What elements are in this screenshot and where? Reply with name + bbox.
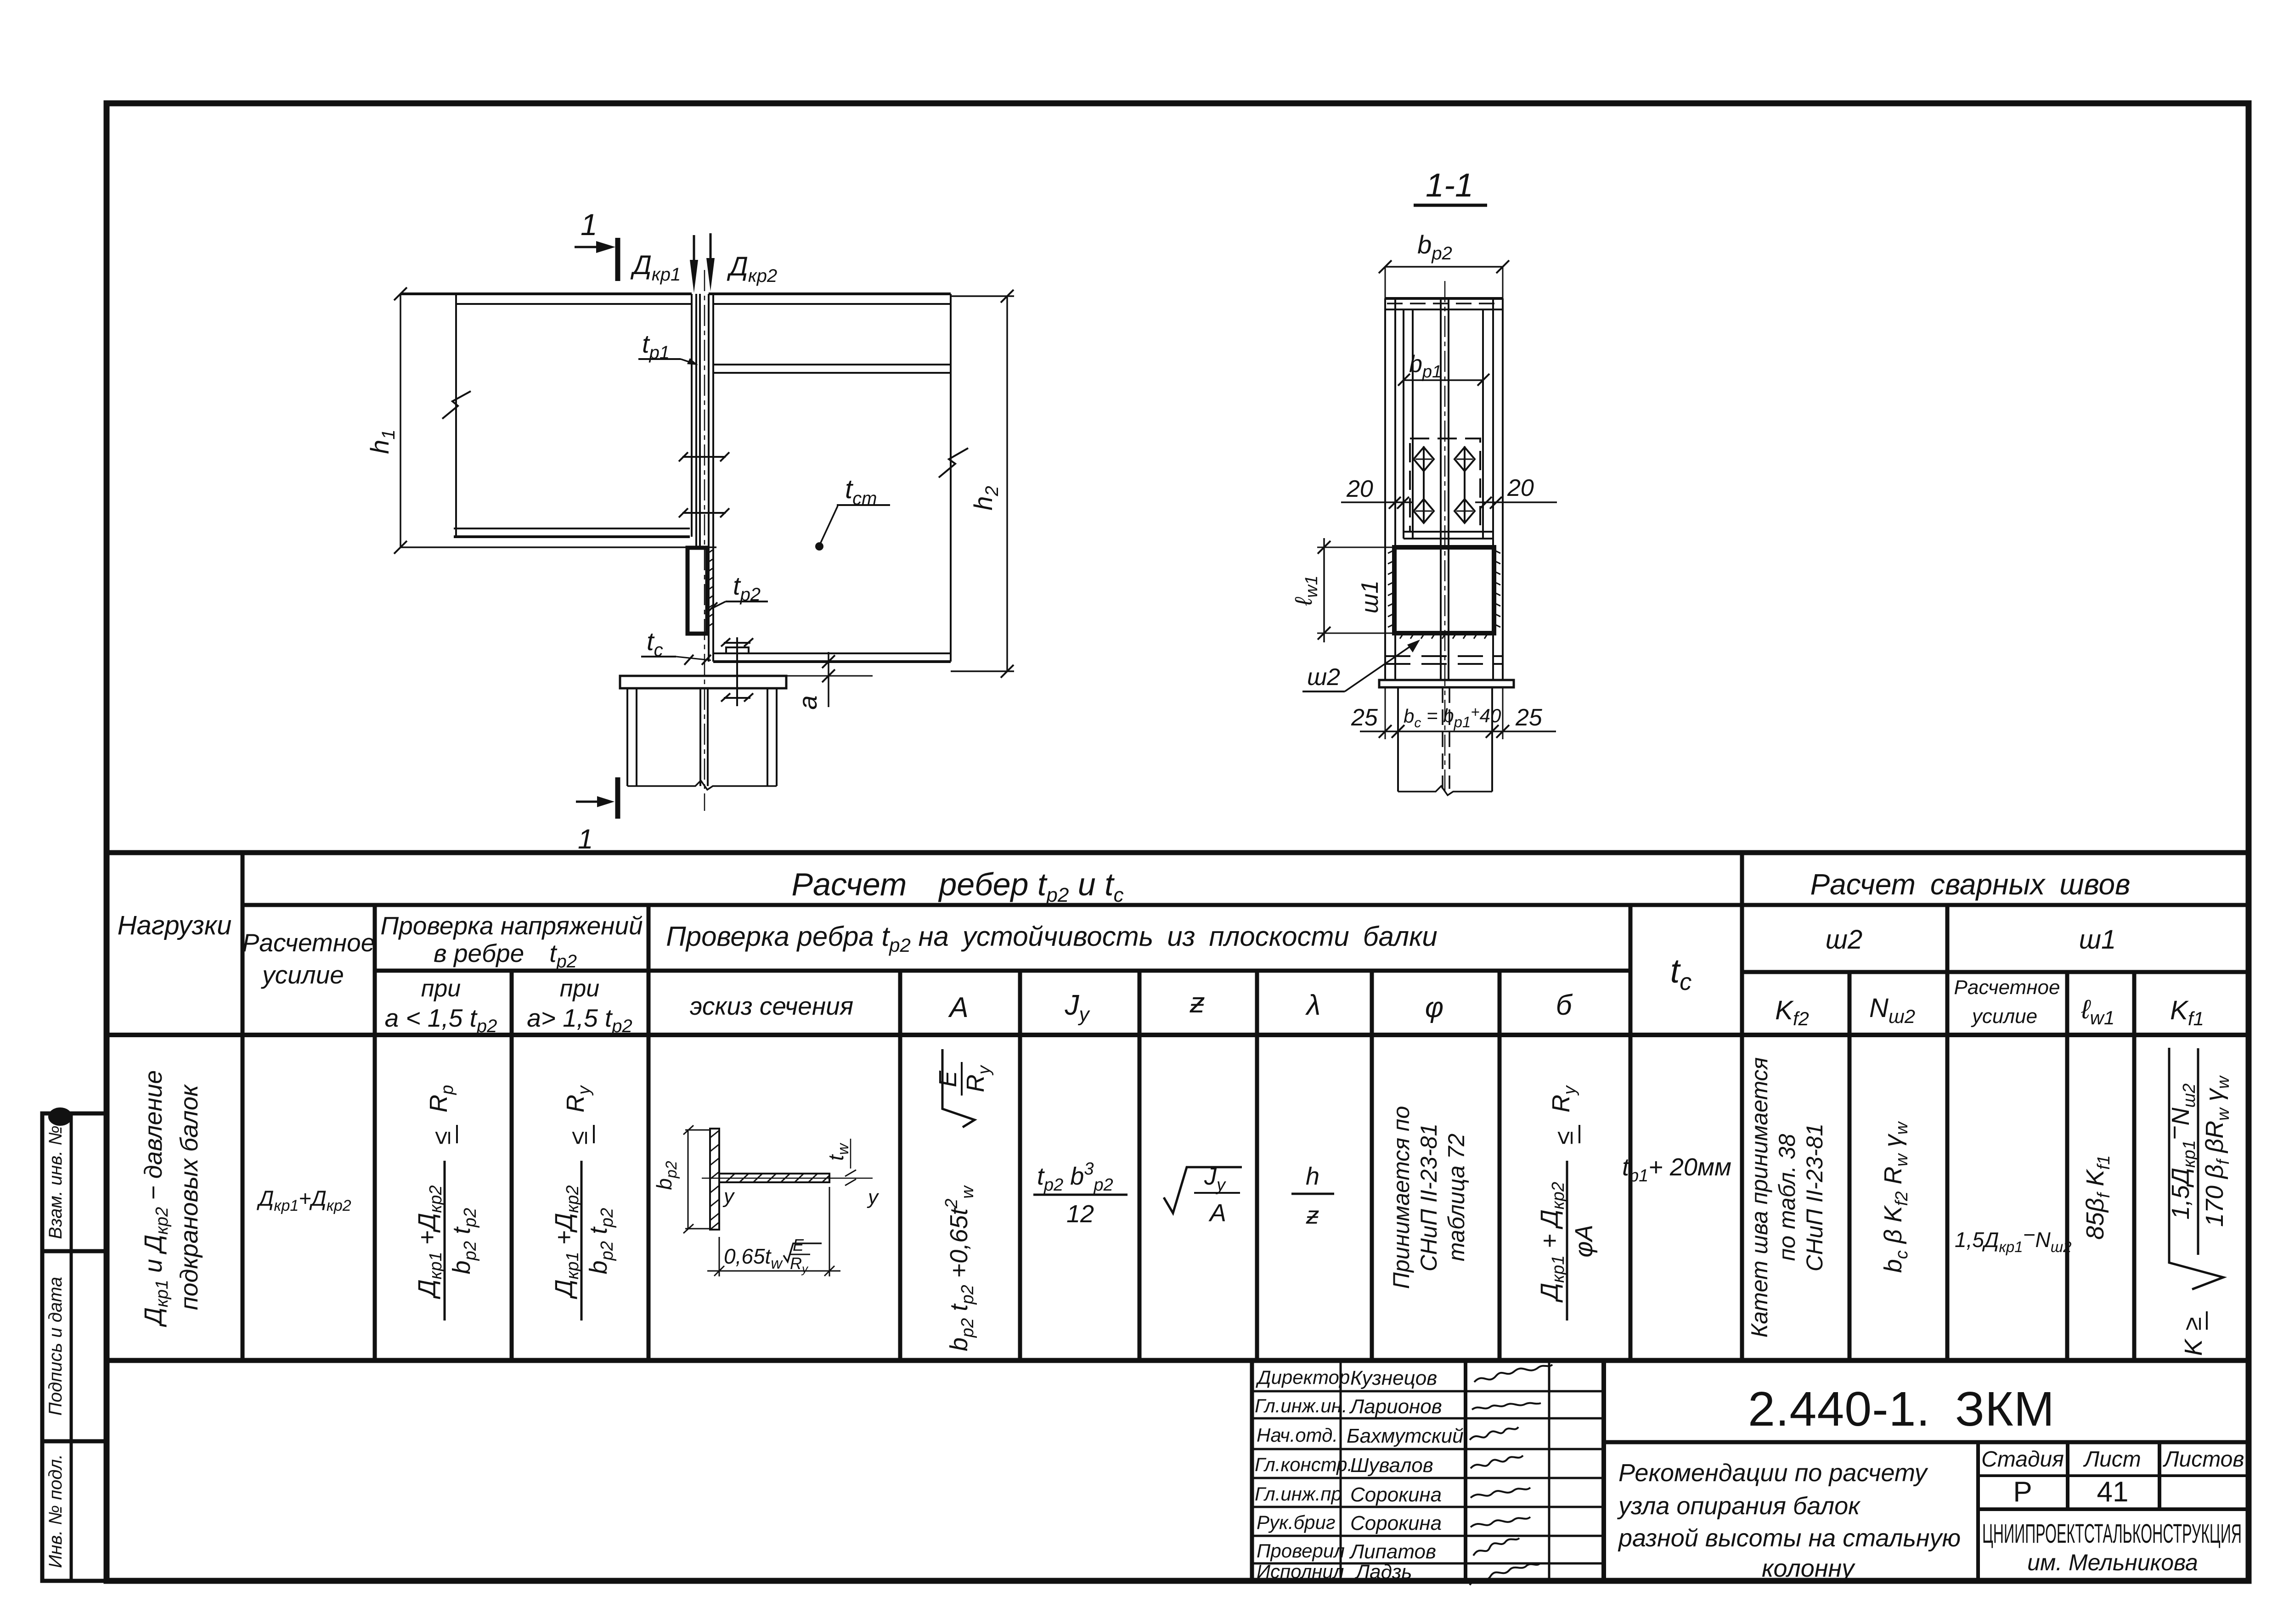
svg-text:усилие: усилие <box>260 961 344 989</box>
weld plate ш1 (bold) <box>1394 547 1494 633</box>
section mark 1 (top) <box>575 208 618 281</box>
svg-text:y: y <box>722 1185 735 1208</box>
hidden splice plate (dashed) <box>1410 438 1480 532</box>
svg-text:1-1: 1-1 <box>1426 167 1473 204</box>
svg-text:ƶ: ƶ <box>1190 987 1205 1019</box>
force arrow Дкр2 <box>706 233 777 291</box>
svg-text:по табл. 38: по табл. 38 <box>1774 1134 1800 1261</box>
svg-text:подкрановых балок: подкрановых балок <box>175 1084 203 1310</box>
svg-text:Липатов: Липатов <box>1349 1540 1436 1563</box>
cell Kf2: Катет шва принимается по табл. 38 СНиП II-23-81 (rotated) <box>1747 1057 1827 1338</box>
svg-text:Гл.инж.ин.: Гл.инж.ин. <box>1255 1395 1347 1416</box>
svg-text:Гл.констр.: Гл.констр. <box>1255 1454 1353 1475</box>
svg-text:≥: ≥ <box>2179 1317 2206 1331</box>
beam top flange (section) <box>1385 297 1503 300</box>
svg-text:Инв. № подл.: Инв. № подл. <box>45 1454 66 1568</box>
column line c11 tc left <box>1629 905 1633 1360</box>
svg-text:разной высоты на стальную: разной высоты на стальную <box>1618 1524 1961 1552</box>
column flanges and web <box>627 688 777 786</box>
cell sigma formula: (Дкр1+Дкр2)/(φА) ≤ Ry (rotated) <box>1536 1085 1598 1321</box>
svg-text:СНиП II-23-81: СНиП II-23-81 <box>1416 1124 1442 1271</box>
ink blob over margin box <box>48 1107 72 1126</box>
svg-text:ш1: ш1 <box>1357 580 1383 613</box>
table top line r0 <box>107 850 2249 855</box>
svg-text:ƶ: ƶ <box>1306 1202 1319 1229</box>
cell Jy formula: tр2 bр2³/12 <box>1033 1159 1128 1228</box>
sketch y-y axis <box>702 1178 873 1179</box>
svg-text:при: при <box>421 975 461 1002</box>
column web below cap (hidden, dashed) <box>1442 687 1443 789</box>
svg-text:Сорокина: Сорокина <box>1350 1484 1442 1506</box>
title block line under designation <box>1604 1440 2249 1444</box>
svg-text:20: 20 <box>1507 475 1534 501</box>
bolt symbols (diamonds) <box>1414 446 1475 523</box>
column line c15 <box>2065 972 2069 1360</box>
section mark 1 (bottom) <box>576 777 618 854</box>
svg-text:колонну: колонну <box>1762 1555 1855 1582</box>
table grid <box>107 853 2249 1360</box>
left margin stamp box: Инв. № подл. <box>42 1441 107 1581</box>
column line c5 <box>898 971 902 1360</box>
signature block columns <box>1340 1360 1342 1581</box>
signature block names <box>1347 1367 1464 1583</box>
svg-text:Проверил: Проверил <box>1257 1540 1345 1562</box>
rib plates tp2 outer edges <box>1385 298 1503 680</box>
svg-text:φ: φ <box>1425 992 1443 1023</box>
svg-text:Сорокина: Сорокина <box>1350 1512 1442 1534</box>
sketch dimension bр2 <box>683 1125 710 1233</box>
svg-text:h: h <box>1306 1163 1319 1190</box>
label ш2 with leader arrow <box>1302 640 1420 691</box>
svg-text:А: А <box>1208 1199 1226 1227</box>
svg-text:узла опирания балок: узла опирания балок <box>1617 1492 1861 1520</box>
svg-text:Листов: Листов <box>2163 1447 2244 1472</box>
svg-text:E: E <box>793 1236 804 1254</box>
column cap plate <box>620 676 786 688</box>
svg-text:Расчетное: Расчетное <box>1954 976 2060 999</box>
column flanges below cap <box>1397 687 1399 792</box>
rib plates tp1 between beams <box>691 294 693 537</box>
svg-text:Ладзь: Ладзь <box>1354 1561 1412 1583</box>
svg-text:ш2: ш2 <box>1307 664 1340 691</box>
svg-text:таблица 72: таблица 72 <box>1443 1134 1469 1262</box>
dimension h1 <box>365 287 716 554</box>
svg-text:≤: ≤ <box>1550 1131 1578 1145</box>
splice bottom lines <box>1404 531 1493 533</box>
svg-text:Катет шва принимается: Катет шва принимается <box>1747 1057 1772 1338</box>
column line c10 <box>1498 971 1502 1360</box>
svg-text:≤: ≤ <box>428 1131 456 1145</box>
bolt mark through bottom flange <box>721 637 753 706</box>
svg-text:эскиз сечения: эскиз сечения <box>690 992 853 1020</box>
dimension lw1 <box>1291 538 1394 642</box>
svg-text:Расчет ребер tр2 и tс: Расчет ребер tр2 и tс <box>791 866 1123 906</box>
column line c13 <box>1848 972 1852 1360</box>
title block divider <box>1976 1442 1980 1581</box>
svg-text:Нагрузки: Нагрузки <box>118 910 232 940</box>
эскиз сечения: T-section sketch <box>652 1125 880 1276</box>
svg-text:170 βf βRw γw: 170 βf βRw γw <box>2201 1075 2233 1227</box>
rib plates bр1 <box>1404 309 1483 539</box>
svg-text:E: E <box>934 1070 962 1087</box>
svg-text:Лист: Лист <box>2083 1447 2141 1472</box>
svg-text:K: K <box>2180 1338 2207 1356</box>
column web (section) <box>1440 298 1442 680</box>
svg-text:им. Мельникова: им. Мельникова <box>2027 1550 2198 1575</box>
title text <box>1617 1459 1961 1582</box>
стадия table lines <box>2066 1442 2069 1509</box>
beam 2 right end <box>950 294 952 662</box>
svg-text:Гл.инж.пр: Гл.инж.пр <box>1255 1483 1342 1505</box>
svg-text:ш2: ш2 <box>1826 925 1862 955</box>
dimension bр2 <box>1379 230 1509 298</box>
column line c9 <box>1370 971 1374 1360</box>
beam 2 break mark <box>939 448 968 478</box>
dimension 25 bс=bр1+40 25 <box>1351 687 1556 739</box>
beam 1 top flange <box>400 292 692 295</box>
svg-text:в ребре tр2: в ребре tр2 <box>434 939 577 972</box>
bolt cross marks on rib (lower) <box>679 508 729 517</box>
svg-text:Взам. инв. №: Взам. инв. № <box>45 1125 66 1239</box>
column bottom break <box>1398 786 1492 795</box>
force arrow Дкр1 <box>630 235 698 293</box>
cell formula при a&gt;1,5: (Дкр1+Дкр2)/(bр2 tр2) ≤ Ry (rotated) <box>550 1085 617 1321</box>
header line r2 left part <box>375 969 1630 973</box>
dimension a <box>749 652 873 710</box>
weld ticks on rib tp2 <box>708 550 713 627</box>
svg-text:ш1: ш1 <box>2079 925 2116 955</box>
cell z formula: √(Jy/A) <box>1164 1163 1242 1227</box>
signature block rows <box>1252 1390 1604 1393</box>
column centerline <box>704 270 705 811</box>
svg-text:y: y <box>867 1186 880 1208</box>
column line c7 <box>1138 971 1142 1360</box>
column centerline <box>1444 281 1446 795</box>
svg-text:Шувалов: Шувалов <box>1350 1454 1433 1477</box>
svg-text:41: 41 <box>2097 1476 2129 1508</box>
svg-text:Директор: Директор <box>1256 1366 1350 1388</box>
cell Нагрузки: Дкр1 и Дкр2 - давление подкрановых балок (rotated) <box>140 1070 203 1327</box>
svg-text:φА: φА <box>1570 1225 1598 1257</box>
label tст with leader dot <box>815 474 890 551</box>
column bottom break <box>627 781 777 790</box>
svg-text:a: a <box>793 695 822 709</box>
svg-text:при: при <box>560 975 599 1002</box>
table bottom line r4 <box>107 1358 2249 1363</box>
hidden beam bottom flange (dashed) <box>1385 655 1503 657</box>
svg-text:Расчетное: Расчетное <box>242 928 375 957</box>
column line c2 <box>373 905 377 1360</box>
header line r2 right part <box>1742 970 2249 974</box>
column line c1 Нагрузки <box>241 853 245 1360</box>
column line c16 <box>2132 972 2137 1360</box>
rib plate tp2 (bold) <box>688 548 707 634</box>
svg-text:≤: ≤ <box>565 1131 592 1145</box>
label tр2 with leader <box>705 571 768 614</box>
dimension h2 <box>951 290 1014 678</box>
svg-text:Проверка напряжений: Проверка напряжений <box>380 911 643 940</box>
svg-text:12: 12 <box>1066 1200 1094 1228</box>
header bottom line r3 <box>107 1033 2249 1037</box>
svg-text:Бахмутский: Бахмутский <box>1347 1425 1464 1447</box>
svg-text:Рук.бриг: Рук.бриг <box>1257 1512 1336 1533</box>
svg-text:25: 25 <box>1351 704 1378 731</box>
table header texts <box>118 866 2204 1036</box>
stiffener on beam2 bottom flange <box>726 647 749 653</box>
sketch rib plate (vertical, hatched) <box>710 1129 719 1230</box>
cell phi: Принимается по СНиП II-23-81 таблица 72 (rotated) <box>1388 1106 1469 1289</box>
column line c12 welds section <box>1740 853 1744 1360</box>
column line c6 <box>1018 971 1022 1360</box>
svg-text:20: 20 <box>1346 476 1373 502</box>
signature block outer frame <box>1252 1360 1604 1581</box>
beam 2 bottom flange <box>713 652 951 654</box>
svg-text:Принимается по: Принимается по <box>1388 1106 1414 1289</box>
svg-text:Исполнил: Исполнил <box>1257 1561 1344 1582</box>
column line c8 <box>1255 971 1259 1360</box>
beam 2 left end plates <box>708 294 710 662</box>
handwritten signatures <box>1470 1365 1552 1585</box>
title block left edge <box>1601 1360 1606 1581</box>
svg-text:Кузнецов: Кузнецов <box>1350 1367 1437 1389</box>
svg-text:1: 1 <box>581 208 598 242</box>
bolt cross marks on rib (upper) <box>679 452 729 461</box>
beam 2 top flange <box>709 292 951 295</box>
column cap plate (section) <box>1379 680 1514 687</box>
dimension 20 (left) <box>1341 476 1413 509</box>
left margin stamp box: Подпись и дата <box>42 1251 107 1441</box>
svg-text:б: б <box>1556 989 1573 1021</box>
sketch bottom dimension 0,65tw√(E/Ry) <box>707 1187 840 1276</box>
svg-text:ЦНИИПРОЕКТСТАЛЬКОНСТРУКЦИЯ: ЦНИИПРОЕКТСТАЛЬКОНСТРУКЦИЯ <box>1982 1519 2242 1549</box>
beam 1 bottom flange <box>454 528 690 529</box>
svg-text:Расчет сварных швов: Расчет сварных швов <box>1810 868 2130 901</box>
svg-text:Р: Р <box>2013 1476 2032 1508</box>
signature block role labels <box>1255 1366 1353 1582</box>
стадия захедеры <box>1981 1447 2244 1472</box>
beam 1 break mark <box>442 391 471 419</box>
cell A formula: bр2 tр2+0,65t²w √(E/Ry) (rotated) <box>934 1049 994 1351</box>
svg-text:Нач.отд.: Нач.отд. <box>1257 1424 1338 1446</box>
weld ticks around ш1 <box>1388 550 1500 639</box>
column line c4 <box>647 905 651 1360</box>
dimension bр1 <box>1398 351 1489 386</box>
cell lambda formula: h/ƶ <box>1291 1163 1334 1229</box>
svg-text:1: 1 <box>578 824 593 854</box>
svg-text:Подпись и дата: Подпись и дата <box>45 1277 66 1416</box>
beam 1 left end <box>455 294 457 537</box>
svg-text:Стадия: Стадия <box>1981 1447 2064 1472</box>
svg-text:Рекомендации по расчету: Рекомендации по расчету <box>1618 1459 1928 1487</box>
column line c3 <box>510 971 514 1360</box>
label tc with leader <box>641 627 711 665</box>
cell formula при a&lt;1,5: (Дкр1+Дкр2)/(bр2 tр2) ≤ Rp (rotated) <box>413 1085 480 1321</box>
svg-text:λ: λ <box>1305 989 1321 1021</box>
sketch web plate (horizontal, hatched) <box>719 1174 829 1182</box>
label tp1 with leader <box>638 329 698 365</box>
svg-text:25: 25 <box>1515 704 1543 731</box>
svg-text:Ларионов: Ларионов <box>1349 1395 1442 1418</box>
svg-text:усилие: усилие <box>1971 1005 2037 1028</box>
cell Kf1 formula: K ≥ √((1,5Дкр1−Nш2)/(170βf βRw γw)) (rotated) <box>2161 1048 2233 1356</box>
svg-text:А: А <box>947 992 968 1023</box>
radical E/Ry <box>942 1049 975 1127</box>
svg-text:СНиП II-23-81: СНиП II-23-81 <box>1802 1124 1827 1271</box>
svg-text:2.440-1. ЗКМ: 2.440-1. ЗКМ <box>1748 1382 2055 1436</box>
beam 2 rail lines <box>713 364 951 365</box>
dimension 20 (right) <box>1475 475 1557 509</box>
header line r1 <box>242 903 2249 907</box>
left margin stamp box: Взам. инв. № <box>42 1113 107 1251</box>
column line c14 <box>1945 905 1950 1360</box>
svg-text:Проверка ребра tр2 на устойчив: Проверка ребра tр2 на устойчивость из пл… <box>666 921 1438 956</box>
